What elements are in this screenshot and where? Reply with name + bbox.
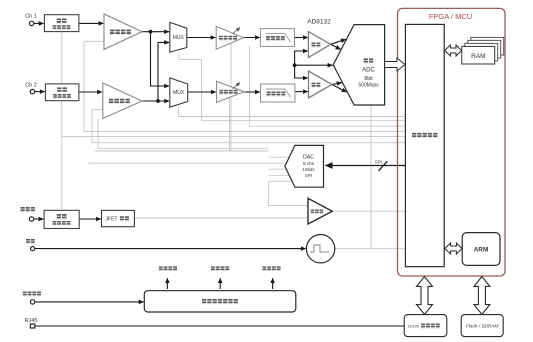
zh JFET buffer label xyxy=(120,216,129,221)
wire clock to ADC xyxy=(370,105,372,249)
DAC pentagon xyxy=(285,145,324,187)
VCA triangle channel2 xyxy=(217,81,245,102)
wire VCA2 to LPF2 xyxy=(244,91,259,93)
input terminal power plug xyxy=(30,300,34,304)
zh coupling2 line1 xyxy=(57,87,67,92)
zh buffer-amp2 label xyxy=(109,99,130,104)
svg-text:ARM: ARM xyxy=(474,247,489,254)
svg-text:SPI: SPI xyxy=(305,173,312,178)
wire buffer1 control xyxy=(84,41,405,131)
wire clock conditioner output to FPGA xyxy=(335,248,406,250)
wire LPF2 to ADC buffer2 xyxy=(295,91,308,93)
coupling relay box channel1 xyxy=(44,15,79,32)
svg-text:10/100: 10/100 xyxy=(407,324,419,328)
zh coupling2 line2 relay xyxy=(53,94,71,99)
svg-text:MUX: MUX xyxy=(173,90,185,96)
zh programmable logic label xyxy=(412,133,438,138)
wire crossover buffer1 to MUX2 input1 xyxy=(151,32,170,86)
coupling relay box channel2 xyxy=(45,84,79,101)
connector RJ45 xyxy=(30,324,34,328)
wire offset bus xyxy=(98,119,269,149)
wire relay bus to FPGA xyxy=(62,136,406,138)
wire buffer1 diff outputs to ADC xyxy=(331,39,346,44)
FPGA / MCU red outline box xyxy=(398,8,506,276)
hollow double arrow FPGA-FlashSDRAM xyxy=(474,277,490,315)
wire VCA1 gain control xyxy=(230,43,232,151)
wire gain bus horizontal xyxy=(95,150,269,152)
zh coupling3 line2 relay xyxy=(53,221,71,226)
svg-text:Ch 1: Ch 1 xyxy=(25,13,37,19)
zh digital core label xyxy=(262,266,280,271)
input terminal external trigger xyxy=(29,217,33,221)
svg-text:500Msps: 500Msps xyxy=(358,83,379,89)
hollow arrow ADC to FPGA xyxy=(385,58,405,71)
zh adc-buffer1 label xyxy=(311,42,320,47)
wire coupling2 to buffer2 xyxy=(79,91,102,93)
input terminal Ch1 xyxy=(29,21,33,25)
power arrow analog supply xyxy=(166,278,168,289)
wire MUX1 to VCA1 xyxy=(187,37,216,39)
zh clock label xyxy=(26,239,35,244)
svg-text:8 chs: 8 chs xyxy=(303,161,315,166)
LPF2 response glyph xyxy=(266,89,291,97)
zh VCA1 label xyxy=(219,36,237,41)
hollow double arrow logic-ARM xyxy=(445,243,462,254)
Flash SDRAM box xyxy=(461,315,503,337)
zh comparator label xyxy=(311,209,324,213)
wire VCA1 to LPF1 xyxy=(244,37,260,39)
hollow double arrow logic-RAM xyxy=(445,45,462,56)
power arrow digital core xyxy=(272,278,274,289)
VCA1 gain arrow xyxy=(233,28,241,34)
zh coupling1 line2 relay xyxy=(53,25,71,30)
zh coupling1 line1 xyxy=(57,18,67,23)
comparator triangle xyxy=(308,198,332,224)
zh analog supply label xyxy=(159,266,177,271)
zh buffer-amp1 label xyxy=(110,30,131,35)
zh digital io label xyxy=(211,266,229,271)
zh power plug label xyxy=(23,291,41,296)
low pass filter box 1 xyxy=(260,29,294,47)
wire common node to ADC mid input xyxy=(295,64,333,66)
hollow double arrow FPGA-ethernet xyxy=(417,277,433,315)
svg-text:ADC: ADC xyxy=(362,68,375,74)
MUX 2 trapezoid xyxy=(170,78,188,107)
svg-text:MUX: MUX xyxy=(173,35,185,41)
wire comparator output to FPGA xyxy=(332,210,405,212)
wire Ch1 terminal to coupling xyxy=(34,22,44,24)
buffer amplifier triangle channel1 xyxy=(104,14,142,49)
zh ethernet label xyxy=(421,323,440,328)
wire JFET buffer to comparator xyxy=(134,217,308,219)
node junction buffer1 out xyxy=(149,30,153,34)
wire LPF1 to ADC buffer1 xyxy=(294,37,307,39)
svg-text:RJ45: RJ45 xyxy=(25,318,38,324)
wire MUX1 select xyxy=(179,52,405,121)
MUX 1 trapezoid xyxy=(170,22,187,52)
VCA2 gain arrow xyxy=(233,83,241,89)
wire crossover buffer2 to MUX1 input2 xyxy=(158,42,169,101)
wire clock terminal to conditioner xyxy=(35,248,306,250)
low pass filter box 2 xyxy=(261,84,295,102)
buffer amplifier triangle channel2 xyxy=(103,83,142,119)
node junction common mode xyxy=(293,63,297,67)
svg-text:JFET: JFET xyxy=(106,217,118,223)
svg-text:AD8132: AD8132 xyxy=(307,18,331,25)
clock conditioner circle xyxy=(306,235,334,263)
VCA triangle channel1 xyxy=(216,26,243,49)
RAM stacked boxes xyxy=(462,37,504,64)
wire common node to buffer2 input1 xyxy=(295,65,308,78)
input terminal Ch2 xyxy=(30,89,34,93)
wire RJ45 to ethernet box xyxy=(35,325,405,327)
zh coupling3 line1 xyxy=(57,214,67,219)
wire DAC to comparator threshold xyxy=(269,181,309,205)
svg-text:Ch 2: Ch 2 xyxy=(25,83,37,89)
wire relay control bus vertical xyxy=(61,32,63,211)
wire common node to buffer1 input2 xyxy=(295,51,308,65)
wire MUX2 select xyxy=(179,107,406,116)
svg-text:8bit: 8bit xyxy=(364,76,373,82)
zh VCA2 label xyxy=(219,90,237,95)
JFET buffer box xyxy=(102,210,135,226)
wire LPF control xyxy=(250,46,406,126)
zh LPF2 label xyxy=(267,91,286,96)
wire SPI from FPGA to DAC xyxy=(326,165,406,167)
wire buffer2 diff outputs to ADC xyxy=(332,83,342,85)
wire MUX2 to VCA2 xyxy=(188,91,216,93)
LPF1 response glyph xyxy=(266,34,291,42)
wire trigger terminal to coupling3 xyxy=(34,218,44,220)
svg-text:FPGA / MCU: FPGA / MCU xyxy=(429,12,472,21)
wire buffer2 control xyxy=(92,110,405,143)
power arrow digital io xyxy=(219,278,221,289)
zh power mgmt label xyxy=(202,299,238,304)
AD8132 buffer triangle 2 xyxy=(309,71,333,98)
wire coupling3 to JFET buffer xyxy=(79,218,101,220)
wire VCA2 gain control xyxy=(229,97,231,151)
wire DAC output bus xyxy=(88,162,268,164)
dual ADC pentagon xyxy=(333,25,384,105)
zh LPF1 label xyxy=(266,36,285,41)
coupling relay box trigger xyxy=(44,210,79,228)
svg-text:10bits: 10bits xyxy=(302,167,315,172)
zh adc-buffer2 label xyxy=(311,83,320,88)
wire DAC fanout comb xyxy=(269,157,293,181)
power management box xyxy=(144,291,295,312)
input terminal clock xyxy=(30,247,34,251)
svg-text:RAM: RAM xyxy=(471,53,485,60)
svg-text:SPI: SPI xyxy=(375,160,382,165)
wire power plug to power box xyxy=(35,301,144,303)
ethernet interface box xyxy=(404,315,447,337)
SPI bus slash xyxy=(379,161,388,171)
zh ADC dual label xyxy=(364,58,374,63)
wire buffer1 out to MUX1 input1 xyxy=(142,31,169,33)
programmable logic rectangle xyxy=(405,24,444,266)
AD8132 buffer triangle 1 xyxy=(308,32,330,58)
wire coupling1 to buffer1 xyxy=(79,22,103,24)
svg-text:DAC: DAC xyxy=(303,155,314,161)
wire buffer2 out to MUX2 input2 xyxy=(142,100,169,102)
wire Ch2 terminal to coupling xyxy=(35,91,45,93)
zh ext trigger label xyxy=(21,207,36,212)
ARM box xyxy=(462,233,500,266)
square wave glyph xyxy=(310,245,329,252)
node junction buffer2 out xyxy=(156,99,160,103)
svg-text:Flash / SDRAM: Flash / SDRAM xyxy=(466,324,498,329)
